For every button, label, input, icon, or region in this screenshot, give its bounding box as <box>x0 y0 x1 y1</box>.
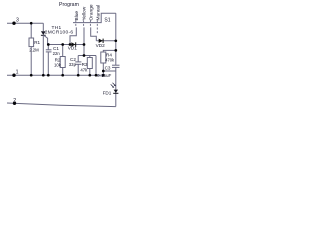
svg-text:47k: 47k <box>80 68 88 73</box>
wire right vertical lower <box>115 68 117 107</box>
svg-text:Blue: Blue <box>74 11 80 21</box>
wire gate node horizontal <box>48 44 84 46</box>
node blue riser dot <box>69 43 72 46</box>
resistor R1 <box>29 38 34 47</box>
svg-text:Manual: Manual <box>96 5 102 21</box>
wire C3 bottom horizontal <box>103 70 116 72</box>
node gate-C1 dot <box>47 43 50 46</box>
node R1 top dot <box>30 22 33 25</box>
wire terminal3 horizontal <box>7 22 43 24</box>
wire R1 bottom lead <box>30 47 32 76</box>
svg-text:2: 2 <box>13 98 16 104</box>
thyristor TH1 symbol <box>41 31 48 44</box>
capacitor C1 plates <box>46 50 52 52</box>
node terminal3 dot <box>12 22 15 25</box>
wire TH1 cathode down to rail <box>42 35 44 75</box>
switch S1 dashed leader manual <box>96 20 98 34</box>
svg-text:10k: 10k <box>54 62 62 67</box>
svg-text:22n: 22n <box>53 51 61 56</box>
svg-text:Yellow: Yellow <box>82 6 88 20</box>
wire node55 horizontal <box>78 55 96 57</box>
svg-text:VD2: VD2 <box>96 43 106 48</box>
wire right vertical upper <box>115 13 117 65</box>
svg-text:FD1: FD1 <box>103 90 112 95</box>
labels <box>13 2 115 104</box>
svg-text:S1: S1 <box>104 17 110 23</box>
wire C2 top lead <box>77 56 79 62</box>
node C3 left dot <box>102 70 105 73</box>
wire TH1 anode lead <box>42 23 44 31</box>
wire C1 bottom lead <box>47 52 49 75</box>
wire R1 top lead <box>30 23 32 38</box>
resistor R3 <box>87 58 92 69</box>
node VD2 right dot <box>114 39 117 42</box>
rail dots <box>30 74 33 77</box>
switch S1 dashed leader blue <box>75 20 77 27</box>
resistor R2 <box>60 57 65 68</box>
diode VD1 <box>71 42 75 46</box>
wire blue contact riser <box>70 27 76 44</box>
switch S1 dashed leader yellow <box>83 20 85 27</box>
node R4 right dot <box>114 49 117 52</box>
svg-text:33p: 33p <box>69 62 77 67</box>
wire R3 top lead <box>89 56 91 58</box>
capacitor C3 plates <box>112 65 120 67</box>
diode VD2 <box>99 39 103 43</box>
svg-text:0.15uF: 0.15uF <box>97 73 111 78</box>
svg-text:Program: Program <box>59 2 79 8</box>
svg-text:2MCR100-6: 2MCR100-6 <box>45 29 74 35</box>
node 55 dot <box>83 54 86 57</box>
svg-text:R3: R3 <box>82 62 88 67</box>
wire R2 top lead <box>62 45 64 57</box>
resistor R4 <box>101 52 106 63</box>
wire C1 top lead <box>47 45 49 50</box>
node R2 top dot <box>61 43 64 46</box>
wire R4 bottom lead <box>102 63 104 75</box>
wire node55 down to rail <box>95 56 97 76</box>
wire C2 bottom lead <box>77 64 79 75</box>
svg-text:VD1: VD1 <box>68 45 78 50</box>
node terminal1 dot <box>12 74 15 77</box>
wire ground rail <box>7 74 103 76</box>
svg-text:3: 3 <box>16 18 19 24</box>
wire S1 top rail <box>73 13 116 22</box>
photodiode FD1 <box>111 83 119 94</box>
svg-text:2.2M: 2.2M <box>29 47 39 52</box>
svg-text:470k: 470k <box>105 58 115 63</box>
junction dots <box>12 22 117 106</box>
wire R2 bottom lead <box>62 68 64 76</box>
svg-text:C3: C3 <box>105 65 111 70</box>
node terminal2 dot <box>13 102 16 105</box>
wire R3 bottom lead <box>89 69 91 76</box>
svg-text:Orange: Orange <box>89 4 95 20</box>
svg-text:R1: R1 <box>34 40 40 45</box>
wire orange contact riser <box>91 27 97 40</box>
wire bottom sloped <box>7 103 116 107</box>
capacitor C2 plates <box>75 62 81 64</box>
wire R4 top lead <box>103 50 116 52</box>
node yellow join dot <box>83 43 86 46</box>
wire yellow contact vertical <box>83 27 85 55</box>
wire VD2 horizontal <box>96 40 116 42</box>
svg-text:1: 1 <box>16 70 19 76</box>
switch S1 dashed leader orange <box>89 20 91 27</box>
